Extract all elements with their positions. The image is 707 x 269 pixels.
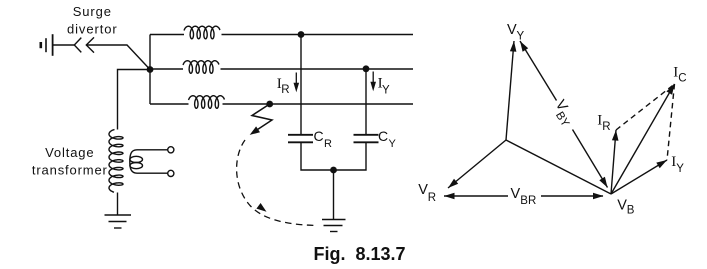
svg-text:B: B (627, 204, 635, 216)
wire (301, 143, 366, 170)
wire (333, 170, 335, 220)
svg-text:Y: Y (389, 138, 397, 150)
node (Y line / CY branch) (363, 65, 370, 72)
fault current dashed path (237, 140, 316, 226)
svg-text:C: C (678, 73, 686, 85)
wire (secondary bottom lead) (137, 172, 168, 174)
surge divertor gap (chevron 1) (74, 38, 81, 53)
dashed construction IR-IC (616, 84, 675, 130)
svg-text:R: R (602, 121, 610, 133)
label VBY (548, 97, 578, 129)
terminal (secondary top) (168, 147, 174, 153)
node (fault point) (266, 101, 273, 108)
capacitor CY (354, 135, 379, 143)
svg-text:R: R (324, 138, 332, 150)
wire (Y phase line) (150, 68, 183, 70)
dashed construction IC-IY (667, 84, 675, 160)
wire (transformer tap) (118, 70, 151, 130)
node (bus / middle phase junction) (147, 66, 154, 73)
phasor VBR (double arrow) (444, 193, 604, 200)
svg-text:V: V (507, 22, 517, 38)
wire (left bus) (149, 35, 151, 105)
svg-text:R: R (428, 192, 436, 204)
phasor IY (611, 160, 667, 194)
capacitor CR (288, 135, 313, 143)
node (capacitor common) (330, 167, 337, 174)
svg-text:C: C (314, 128, 324, 144)
line O to VB (506, 140, 611, 194)
svg-text:Fig. 8.13.7: Fig. 8.13.7 (314, 244, 406, 264)
svg-text:V: V (418, 182, 428, 198)
current arrow IR (294, 73, 300, 93)
svg-text:BY: BY (553, 110, 571, 130)
wire (117, 193, 119, 216)
phasor IR (611, 130, 619, 194)
svg-text:R: R (281, 84, 289, 96)
phasor VR (448, 140, 506, 188)
voltage transformer secondary winding (130, 150, 143, 173)
fault lightning arrow (250, 104, 272, 135)
wire (secondary top lead) (137, 149, 168, 151)
phasor VBY (double arrow) (520, 41, 608, 188)
wire (B phase line) (150, 103, 189, 105)
svg-text:Y: Y (676, 163, 684, 175)
svg-text:V: V (617, 197, 627, 213)
inductor (B phase coil) (189, 96, 225, 109)
current arrow IY (370, 72, 376, 92)
svg-text:Y: Y (517, 30, 525, 42)
ground (transformer earth) (105, 215, 132, 228)
ground (capacitor earth) (322, 220, 346, 232)
svg-text:Voltage: Voltage (45, 145, 94, 160)
svg-text:V: V (511, 186, 521, 202)
svg-text:transformer: transformer (32, 163, 108, 178)
inductor (R phase coil) (184, 26, 220, 39)
svg-text:Surge: Surge (73, 4, 112, 19)
phasor VY (506, 41, 516, 140)
node (R line / CR branch) (298, 31, 305, 38)
svg-text:BR: BR (520, 195, 536, 207)
voltage transformer primary winding (109, 130, 123, 193)
svg-text:Y: Y (382, 84, 390, 96)
ground (surge divertor earth) (41, 34, 53, 56)
wire (CR branch) (300, 35, 302, 135)
svg-text:C: C (378, 128, 388, 144)
svg-text:divertor: divertor (67, 21, 118, 36)
wire (86, 45, 150, 70)
inductor (Y phase coil) (183, 61, 219, 74)
wire (CY branch) (365, 69, 367, 135)
wire (R phase line) (150, 34, 184, 36)
surge divertor gap (chevron 2) (86, 37, 94, 52)
wire (53, 44, 74, 46)
terminal (secondary bottom) (168, 170, 174, 176)
phasor IC (611, 84, 675, 194)
